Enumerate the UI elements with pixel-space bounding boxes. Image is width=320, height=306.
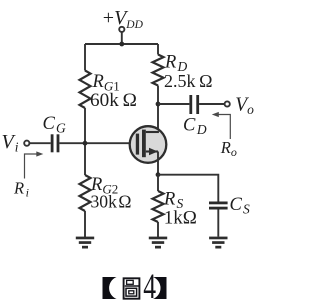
wire : RD bottom to drain node and into transistor	[157, 86, 159, 133]
capacitor CG	[51, 134, 60, 152]
wire : right branch vertical (rail to RD)	[157, 44, 159, 55]
wire : top supply rail	[85, 43, 158, 45]
wire : drain node to CD	[158, 103, 189, 105]
node: source junction dot	[156, 172, 161, 177]
transistor channel bar	[142, 130, 146, 158]
input terminal Vi circle	[24, 141, 29, 146]
svg-text:Ro: Ro	[220, 138, 237, 159]
caption digit 4	[143, 266, 156, 306]
svg-text:CG: CG	[43, 114, 67, 136]
wire : RS to ground	[157, 222, 159, 237]
node: gate junction dot	[83, 141, 88, 146]
wire : left branch vertical (rail to RG1)	[84, 44, 86, 71]
ground (RG2)	[76, 237, 94, 249]
ground (CS)	[209, 237, 227, 249]
transistor source internal lead with arrow	[146, 150, 158, 152]
wire : source lead down to source node	[157, 152, 159, 175]
resistor RS	[153, 191, 164, 222]
power +VDD terminal	[119, 27, 124, 44]
svg-text:30k Ω: 30k Ω	[91, 192, 132, 212]
wire : source node over to CS branch	[158, 175, 218, 202]
wire : RG2 to ground	[84, 211, 86, 237]
caption bracket left	[103, 277, 117, 299]
transistor Q1 (JFET) body circle	[130, 126, 167, 163]
node: VDD junction dot	[119, 42, 124, 47]
resistor RD	[153, 55, 164, 86]
svg-text:Ri: Ri	[13, 179, 29, 200]
svg-text:Vo: Vo	[235, 94, 254, 117]
label RD 2.5k ohm	[164, 53, 212, 92]
resistor RG2	[80, 175, 91, 211]
label RG2 30k ohm	[90, 175, 131, 212]
output terminal Vo circle	[225, 101, 230, 106]
svg-text:4: 4	[143, 266, 156, 306]
wire : CS to ground	[217, 210, 219, 237]
svg-text:CS: CS	[230, 195, 251, 217]
transistor gate bar	[136, 134, 139, 155]
svg-text:60k Ω: 60k Ω	[90, 90, 137, 111]
transistor drain internal lead	[146, 131, 159, 133]
arrow Ri (bent pointer)	[25, 154, 40, 179]
node: drain junction dot	[156, 102, 161, 107]
svg-text:CD: CD	[183, 116, 207, 138]
caption character TU (figure)	[124, 278, 140, 298]
caption bracket right	[153, 277, 167, 299]
resistor RG1	[80, 71, 91, 109]
wire : CD to output terminal	[199, 103, 225, 105]
arrow Ro (bent pointer)	[216, 115, 231, 140]
label RS 1k ohm	[163, 190, 197, 229]
capacitor CS	[209, 202, 228, 210]
wire : CG to gate	[59, 142, 135, 144]
svg-text:2.5k Ω: 2.5k Ω	[164, 71, 212, 91]
wire : source node to RS	[157, 175, 159, 191]
capacitor CD	[189, 95, 199, 114]
svg-text:1kΩ: 1kΩ	[164, 208, 197, 229]
wire : RG1 bottom to gate node to RG2	[84, 108, 86, 175]
svg-text:Vi: Vi	[2, 131, 19, 155]
svg-text:+VDD: +VDD	[103, 7, 144, 31]
wire : input to CG	[29, 142, 50, 144]
label RG1 60k ohm	[90, 72, 137, 111]
ground (RS)	[149, 237, 167, 249]
